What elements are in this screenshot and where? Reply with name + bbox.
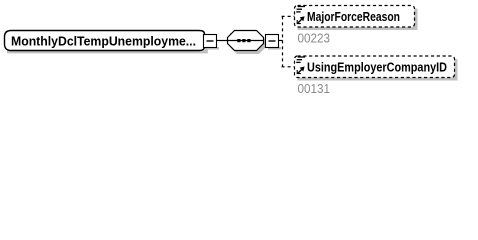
reference arrow icon of UsingEmployerCompanyID <box>297 67 304 74</box>
svg-text:MajorForceReason: MajorForceReason <box>307 9 400 24</box>
dashed branch vertical wire <box>282 16 284 66</box>
reference arrow icon of MajorForceReason <box>297 16 304 23</box>
sequence compositor <box>228 31 267 55</box>
wire button to branch <box>279 40 283 42</box>
svg-text:00223: 00223 <box>298 32 331 46</box>
dashed wire to MajorForceReason <box>282 15 295 17</box>
expand button on parent <box>204 35 220 50</box>
element MonthlyDclTempUnemployme (parent) <box>5 31 208 54</box>
element MajorForceReason (optional) <box>295 6 418 31</box>
element UsingEmployerCompanyID (optional) <box>295 56 458 81</box>
svg-text:00131: 00131 <box>298 82 331 96</box>
svg-text:UsingEmployerCompanyID: UsingEmployerCompanyID <box>307 60 447 75</box>
svg-text:MonthlyDclTempUnemployme...: MonthlyDclTempUnemployme... <box>11 34 196 49</box>
annotation icon of MajorForceReason <box>296 7 305 12</box>
wire button to sequence <box>217 40 227 42</box>
expand button after sequence <box>266 35 282 50</box>
annotation icon of UsingEmployerCompanyID <box>296 57 305 62</box>
dashed wire to UsingEmployerCompanyID <box>282 66 295 68</box>
